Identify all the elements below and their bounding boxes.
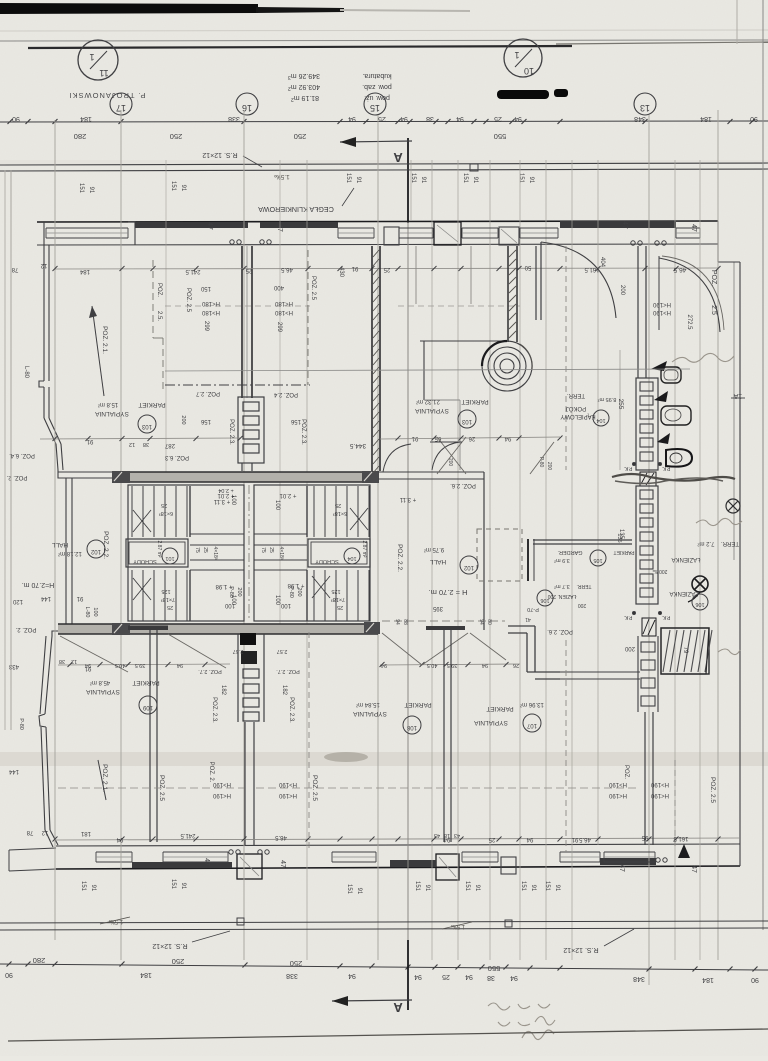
washbasin bbox=[661, 367, 681, 383]
svg-text:100: 100 bbox=[280, 602, 291, 608]
dim chain ticks y839 bbox=[53, 837, 58, 842]
svg-text:R.S. 12×12: R.S. 12×12 bbox=[152, 942, 187, 949]
gutter tick bottom 1 bbox=[237, 918, 244, 925]
door swing diagonal left unit bbox=[60, 636, 128, 672]
shaft box l0 bbox=[243, 669, 259, 678]
pencil handwriting bottom right bbox=[488, 1003, 555, 1026]
svg-text:45.8 m²: 45.8 m² bbox=[90, 679, 110, 685]
top wall vent circles pair 4 bbox=[655, 241, 659, 245]
svg-text:91: 91 bbox=[351, 265, 358, 271]
svg-text:R.S. 12×12: R.S. 12×12 bbox=[202, 151, 237, 158]
svg-text:1: 1 bbox=[89, 52, 94, 62]
dim chain ticks y269 bbox=[53, 266, 58, 271]
dim tick bottom bbox=[338, 964, 343, 969]
svg-text:R.S. 12×12: R.S. 12×12 bbox=[563, 946, 598, 953]
svg-text:18: 18 bbox=[444, 832, 450, 838]
svg-text:151: 151 bbox=[170, 879, 176, 890]
svg-text:94: 94 bbox=[414, 973, 422, 980]
svg-text:184: 184 bbox=[140, 971, 152, 978]
svg-text:91: 91 bbox=[472, 177, 478, 184]
grid line x675 bbox=[674, 160, 676, 960]
svg-text:47: 47 bbox=[279, 860, 286, 868]
svg-text:ŁAZIENKA: ŁAZIENKA bbox=[671, 556, 700, 562]
svg-text:91: 91 bbox=[84, 665, 91, 671]
svg-text:108: 108 bbox=[406, 724, 417, 730]
svg-text:94: 94 bbox=[465, 973, 473, 980]
door swing diagonal right unit right door bbox=[470, 633, 506, 660]
top wall chimney block 3 bbox=[499, 227, 519, 245]
grid line x546 bbox=[545, 160, 547, 960]
dim tick bbox=[242, 119, 247, 124]
svg-text:103: 103 bbox=[141, 423, 152, 429]
svg-text:200: 200 bbox=[180, 415, 186, 424]
svg-text:13.96 m²: 13.96 m² bbox=[520, 701, 544, 707]
bottom dimension line bbox=[0, 964, 768, 970]
svg-text:102: 102 bbox=[90, 548, 101, 554]
svg-text:91: 91 bbox=[90, 885, 96, 892]
svg-text:349.26 m3: 349.26 m3 bbox=[288, 72, 320, 80]
svg-text:39.5: 39.5 bbox=[447, 662, 458, 668]
svg-text:200 ‰: 200 ‰ bbox=[653, 568, 668, 574]
circle 102 left bbox=[87, 540, 105, 558]
svg-text:151: 151 bbox=[518, 173, 524, 184]
svg-text:21.32 m²: 21.32 m² bbox=[416, 398, 440, 404]
svg-text:151: 151 bbox=[520, 881, 526, 892]
svg-text:144: 144 bbox=[8, 768, 19, 774]
grid line x378 bbox=[377, 115, 379, 960]
sheet rule y44 thin full width bbox=[0, 40, 768, 41]
bottom wall window seg 160-230 bbox=[163, 851, 228, 853]
svg-text:4×18³: 4×18³ bbox=[278, 547, 284, 560]
dark triangle fixture 2 bbox=[654, 391, 668, 402]
dim tick bbox=[558, 119, 563, 124]
svg-text:280: 280 bbox=[33, 956, 46, 965]
svg-text:SYPIALNIA: SYPIALNIA bbox=[474, 719, 508, 726]
svg-text:47: 47 bbox=[276, 224, 283, 232]
dark triangle fixture 3 bbox=[657, 433, 670, 444]
svg-text:94: 94 bbox=[348, 972, 356, 979]
axis bubble 13 bbox=[634, 93, 656, 115]
svg-text:H<180: H<180 bbox=[201, 300, 220, 306]
section line A top bbox=[407, 138, 409, 223]
stair top wall extension right thin bbox=[378, 471, 484, 473]
svg-text:25: 25 bbox=[488, 836, 495, 842]
top wall window right bbox=[676, 227, 700, 229]
shaft box m3 bbox=[640, 532, 653, 541]
shaft column walls bbox=[237, 634, 239, 722]
shaft box u1 bbox=[243, 416, 259, 425]
right stair winder lines bbox=[254, 533, 307, 535]
svg-text:90: 90 bbox=[751, 976, 759, 983]
svg-text:10: 10 bbox=[524, 66, 534, 76]
svg-text:12: 12 bbox=[41, 829, 48, 835]
circle 105 bbox=[590, 550, 606, 566]
shaft box r0 bbox=[640, 382, 653, 391]
svg-text:40.5: 40.5 bbox=[115, 662, 126, 668]
svg-text:POZ. 2.4: POZ. 2.4 bbox=[273, 391, 298, 397]
svg-text:46.5: 46.5 bbox=[281, 266, 293, 272]
top wall window seg 519-559 bbox=[520, 227, 558, 229]
svg-text:SYPIALNIA: SYPIALNIA bbox=[86, 688, 120, 695]
dashed vertical x675 bottom bbox=[674, 760, 676, 850]
dim tick bbox=[53, 119, 58, 124]
svg-text:11: 11 bbox=[99, 68, 108, 78]
svg-text:P. TROJANOWSKI: P. TROJANOWSKI bbox=[68, 91, 145, 100]
terrace hatched stair block bbox=[661, 628, 709, 674]
bottom wall chimney block 3 bbox=[501, 857, 516, 874]
WC bowl bbox=[661, 406, 691, 425]
svg-text:151: 151 bbox=[80, 881, 86, 892]
door arcs hall bbox=[432, 442, 460, 470]
top wall window left bbox=[46, 227, 128, 229]
svg-text:100: 100 bbox=[92, 607, 98, 616]
svg-text:103: 103 bbox=[461, 418, 472, 424]
shaft box l1 bbox=[243, 684, 259, 693]
dim tick bottom bbox=[406, 965, 411, 970]
toilet lower bbox=[666, 449, 692, 467]
svg-text:78: 78 bbox=[11, 266, 18, 272]
dim tick bottom bbox=[504, 965, 509, 970]
dim tick bottom bbox=[433, 965, 438, 970]
pencil handwriting int right bbox=[672, 353, 734, 362]
left wall lower notch bbox=[39, 714, 46, 727]
section line A full (dark, x408) bbox=[407, 222, 409, 940]
redaction blob small bbox=[554, 89, 568, 97]
svg-text:KĄPIELOWY: KĄPIELOWY bbox=[560, 413, 595, 419]
garage room walls bbox=[533, 539, 632, 541]
bottom sheet edge line bbox=[8, 1029, 768, 1041]
bath door arc (terrace door top) bbox=[659, 258, 720, 332]
left stair direction slash upper bbox=[133, 510, 151, 532]
svg-text:25: 25 bbox=[337, 604, 343, 610]
svg-text:91: 91 bbox=[420, 177, 426, 184]
svg-text:SYPIALNIA: SYPIALNIA bbox=[95, 410, 129, 417]
svg-text:100: 100 bbox=[274, 595, 280, 606]
svg-text:P-80: P-80 bbox=[228, 586, 234, 598]
right stair direction slash lower bbox=[312, 576, 330, 598]
window jamb stub x471 bbox=[470, 246, 472, 304]
svg-text:A: A bbox=[393, 150, 403, 165]
svg-text:151: 151 bbox=[544, 881, 550, 892]
grid line x572 bbox=[571, 160, 573, 960]
dashed vertical x153 bbox=[152, 260, 154, 338]
faint sheet line top bbox=[0, 30, 768, 31]
left stair treads upper flight bbox=[131, 486, 133, 537]
shaft box u3 bbox=[243, 444, 259, 453]
svg-text:299: 299 bbox=[276, 322, 282, 333]
top wall thick segment centre bbox=[135, 222, 248, 228]
svg-text:50: 50 bbox=[524, 264, 531, 270]
pencil handwriting gaude bbox=[696, 518, 742, 525]
scanner edge black band top-left bbox=[0, 3, 258, 14]
svg-text:POZ. 2.3.: POZ. 2.3. bbox=[228, 419, 234, 445]
svg-text:TERR.: TERR. bbox=[721, 540, 739, 546]
drawing number circle 1/11 bbox=[78, 40, 118, 80]
svg-text:H<180: H<180 bbox=[274, 300, 293, 306]
svg-text:151: 151 bbox=[345, 173, 351, 184]
top dimension line bbox=[0, 121, 768, 122]
schody box right bbox=[308, 539, 370, 567]
hatched wall block right wing 2 bbox=[642, 618, 656, 636]
dim tick bbox=[119, 119, 124, 124]
svg-text:184: 184 bbox=[80, 115, 92, 122]
svg-text:91: 91 bbox=[411, 435, 418, 441]
hall wall right of stairs x484 bbox=[483, 472, 485, 630]
svg-text:GARDER.: GARDER. bbox=[557, 549, 583, 555]
svg-text:94: 94 bbox=[400, 115, 408, 122]
svg-text:2.87 m²: 2.87 m² bbox=[156, 541, 162, 558]
dim tick bottom bbox=[753, 967, 758, 972]
svg-text:POZ. 2.: POZ. 2. bbox=[15, 626, 36, 632]
svg-text:H<190: H<190 bbox=[212, 792, 231, 798]
svg-text:POZ. 2.5: POZ. 2.5 bbox=[311, 775, 318, 801]
T-wall between rooms 107/108 cap bbox=[426, 627, 465, 629]
dashed vertical x309 bottom bbox=[308, 632, 310, 852]
T-wall stem bbox=[443, 630, 445, 842]
svg-text:338: 338 bbox=[228, 115, 240, 122]
shaft box r3 bbox=[640, 424, 653, 433]
axis bubble 17 bbox=[110, 93, 132, 115]
svg-text:PARKIET: PARKIET bbox=[486, 705, 513, 712]
svg-text:POZ.: POZ. bbox=[156, 283, 162, 297]
svg-text:16: 16 bbox=[242, 103, 252, 113]
svg-text:H>190: H>190 bbox=[650, 781, 669, 787]
svg-text:7×18³: 7×18³ bbox=[331, 596, 345, 602]
grid line x598 bbox=[597, 160, 599, 845]
shaft box r2 bbox=[640, 410, 653, 419]
svg-text:91: 91 bbox=[554, 885, 560, 892]
svg-text:88: 88 bbox=[402, 619, 408, 625]
POZ 2.1 arrow left room bbox=[92, 306, 104, 396]
svg-text:POZ.: POZ. bbox=[623, 765, 629, 779]
bottom wall window seg 460-500 bbox=[462, 851, 498, 853]
svg-text:25: 25 bbox=[383, 266, 390, 272]
hatched wall block right wing bbox=[640, 472, 656, 486]
svg-text:POZ. 2.: POZ. 2. bbox=[6, 474, 27, 480]
dashed vertical x566 bottom bbox=[565, 640, 567, 852]
svg-text:550: 550 bbox=[488, 964, 501, 973]
shaft box b2 bbox=[641, 678, 655, 688]
stair block bottom wall band bbox=[58, 624, 378, 634]
svg-text:125: 125 bbox=[331, 588, 340, 594]
interior wall right room divider x566 dashed bbox=[565, 246, 567, 470]
svg-text:94: 94 bbox=[482, 662, 488, 668]
svg-text:PARKIET: PARKIET bbox=[461, 398, 488, 405]
svg-text:POZ. 2.3.: POZ. 2.3. bbox=[288, 697, 294, 723]
svg-text:241.5: 241.5 bbox=[185, 268, 201, 274]
svg-text:90: 90 bbox=[12, 115, 20, 122]
svg-text:91: 91 bbox=[76, 595, 83, 601]
grid line x166 bbox=[165, 160, 167, 480]
right stairwell outline bbox=[254, 485, 370, 621]
stair top wall extension left thin bbox=[58, 471, 112, 473]
black shaft box 2 bbox=[241, 651, 257, 664]
circle 103 left bbox=[138, 415, 156, 433]
svg-text:125: 125 bbox=[161, 588, 170, 594]
dashed poz line corridor bbox=[382, 620, 505, 622]
svg-text:200: 200 bbox=[578, 602, 587, 608]
svg-text:94: 94 bbox=[348, 115, 356, 122]
pencil scribble over terrace bbox=[612, 474, 735, 481]
drawing number circle 1/10 bbox=[504, 39, 542, 77]
svg-text:3.9 m²: 3.9 m² bbox=[554, 557, 570, 563]
svg-text:104: 104 bbox=[596, 417, 605, 423]
bottom double rule upper bbox=[0, 921, 768, 923]
svg-text:94: 94 bbox=[394, 619, 400, 625]
svg-text:47: 47 bbox=[621, 221, 628, 229]
svg-text:H<190: H<190 bbox=[608, 792, 627, 798]
shaft box b3 bbox=[641, 696, 655, 706]
svg-text:200: 200 bbox=[447, 458, 453, 467]
left wall slant to bay bbox=[44, 418, 56, 444]
svg-text:94: 94 bbox=[116, 836, 123, 842]
bathroom inner lines bbox=[424, 399, 460, 401]
dim tick bottom bbox=[528, 966, 533, 971]
bottom exterior wall outer line bbox=[56, 866, 740, 869]
svg-text:47: 47 bbox=[690, 865, 697, 873]
svg-text:348: 348 bbox=[634, 115, 646, 122]
top wall window mid-left bbox=[338, 227, 374, 229]
dim tick bbox=[510, 119, 515, 124]
bathroom wall vertical x424 bbox=[423, 341, 425, 400]
dim tick bottom bbox=[647, 967, 652, 972]
svg-text:POZ. 2.: POZ. 2. bbox=[208, 762, 214, 783]
dim tick bottom bbox=[26, 962, 31, 967]
axis bubble 16 bbox=[236, 93, 258, 115]
svg-text:91: 91 bbox=[571, 836, 578, 842]
H-lines row across bottom rooms bbox=[58, 787, 244, 789]
dim tick bottom bbox=[480, 965, 485, 970]
svg-text:250: 250 bbox=[294, 132, 307, 141]
central wall lower bbox=[244, 722, 246, 845]
svg-text:7.2 m²: 7.2 m² bbox=[697, 540, 714, 546]
central wall upper bbox=[241, 246, 243, 398]
dim tick bbox=[643, 119, 648, 124]
svg-text:200: 200 bbox=[296, 587, 302, 596]
svg-text:H<190: H<190 bbox=[278, 792, 297, 798]
svg-text:POZ. 2.7: POZ. 2.7 bbox=[195, 390, 220, 396]
svg-text:90: 90 bbox=[750, 115, 758, 122]
left wall lower section bbox=[45, 636, 52, 714]
svg-text:POZ. 2.6.: POZ. 2.6. bbox=[450, 482, 476, 488]
window jamb stub x416 bbox=[415, 246, 417, 304]
svg-text:25: 25 bbox=[268, 547, 274, 553]
svg-text:91: 91 bbox=[528, 177, 534, 184]
svg-text:25: 25 bbox=[245, 267, 252, 273]
gutter tick bottom 2 bbox=[505, 920, 512, 927]
shaft box m4 bbox=[640, 546, 653, 555]
svg-text:90: 90 bbox=[5, 971, 13, 978]
svg-text:430: 430 bbox=[338, 267, 344, 278]
svg-text:2.5: 2.5 bbox=[710, 305, 717, 315]
svg-text:78: 78 bbox=[26, 829, 33, 835]
svg-text:25: 25 bbox=[378, 115, 386, 122]
compass symbol 1 bbox=[726, 499, 740, 513]
dim tick bbox=[434, 119, 439, 124]
svg-text:91: 91 bbox=[530, 885, 536, 892]
dim tick bottom bbox=[7, 962, 12, 967]
black shaft box 1 bbox=[240, 633, 256, 645]
svg-text:94: 94 bbox=[510, 974, 518, 981]
left T-wall cap bbox=[128, 625, 168, 627]
svg-text:SCHODY: SCHODY bbox=[133, 558, 157, 564]
svg-text:L-80: L-80 bbox=[23, 366, 29, 379]
svg-text:P-80: P-80 bbox=[288, 586, 294, 598]
left stair winder lines bbox=[190, 533, 244, 535]
svg-text:46.5: 46.5 bbox=[579, 836, 591, 842]
dim tick bottom bbox=[53, 962, 58, 967]
svg-text:TERR.: TERR. bbox=[577, 583, 592, 589]
svg-text:46.5: 46.5 bbox=[275, 834, 287, 840]
gutter tick bbox=[470, 164, 478, 171]
dim tick bottom bbox=[728, 967, 733, 972]
svg-text:A: A bbox=[393, 1000, 403, 1015]
svg-text:2.87 m²: 2.87 m² bbox=[361, 541, 367, 558]
svg-text:46.5: 46.5 bbox=[673, 266, 686, 273]
circle 104 right bbox=[593, 410, 609, 426]
svg-text:156: 156 bbox=[290, 418, 301, 424]
svg-text:94: 94 bbox=[456, 115, 464, 122]
top exterior wall inner line bbox=[37, 244, 718, 245]
dim tick bottom bbox=[693, 967, 698, 972]
shaft box b0 bbox=[641, 642, 655, 652]
svg-text:12: 12 bbox=[71, 658, 77, 664]
schody circle 101 bbox=[162, 548, 178, 564]
right border line of sheet bbox=[762, 0, 764, 930]
svg-text:94: 94 bbox=[526, 836, 533, 842]
grid line x411 bbox=[410, 160, 412, 220]
svg-text:H>190: H>190 bbox=[212, 781, 231, 787]
grid line x520 bbox=[519, 160, 521, 960]
svg-text:182: 182 bbox=[220, 685, 226, 696]
svg-text:POZ. 2.2.: POZ. 2.2. bbox=[396, 544, 403, 572]
grid line x458 bbox=[457, 160, 459, 960]
svg-text:H<190: H<190 bbox=[650, 792, 669, 798]
svg-text:75: 75 bbox=[194, 547, 200, 553]
small wall stub hall bbox=[430, 441, 462, 443]
left wall to bottom bbox=[46, 727, 50, 830]
bottom double rule lower bbox=[0, 928, 768, 930]
svg-text:POZ. 2.3.: POZ. 2.3. bbox=[211, 697, 217, 723]
svg-text:12.18 m²: 12.18 m² bbox=[58, 550, 82, 556]
svg-text:+ 2.04: + 2.04 bbox=[218, 487, 233, 493]
svg-text:P.K.: P.K. bbox=[662, 614, 671, 620]
svg-text:3.7 m²: 3.7 m² bbox=[554, 583, 570, 589]
top wall thick segment right bbox=[560, 221, 676, 228]
svg-text:POZ. 2.7.: POZ. 2.7. bbox=[276, 668, 300, 674]
svg-text:H>180: H>180 bbox=[201, 309, 220, 315]
svg-text:25: 25 bbox=[161, 502, 167, 508]
stair block bottom wall hatched end left bbox=[112, 623, 130, 635]
top wall chimney block 2 bbox=[434, 222, 461, 245]
svg-text:156: 156 bbox=[200, 418, 211, 424]
svg-text:94: 94 bbox=[478, 619, 484, 625]
sheet rule y47 dark left part bbox=[28, 46, 572, 48]
top wall vent circles pair 3 bbox=[631, 241, 635, 245]
svg-text:TERR.: TERR. bbox=[567, 392, 585, 398]
svg-text:kubatura.: kubatura. bbox=[362, 72, 391, 79]
svg-text:25: 25 bbox=[335, 502, 341, 508]
svg-text:25: 25 bbox=[202, 547, 208, 553]
dim tick bbox=[408, 119, 413, 124]
svg-text:POZ. 6.4.: POZ. 6.4. bbox=[9, 452, 35, 458]
right stair treads lower flight bbox=[313, 570, 315, 621]
svg-text:433: 433 bbox=[8, 663, 19, 669]
svg-text:75: 75 bbox=[260, 547, 266, 553]
svg-text:POZ. 2.6.: POZ. 2.6. bbox=[547, 628, 573, 634]
svg-text:41: 41 bbox=[525, 616, 531, 622]
bottom wall vent circles pair 3 bbox=[656, 858, 660, 862]
